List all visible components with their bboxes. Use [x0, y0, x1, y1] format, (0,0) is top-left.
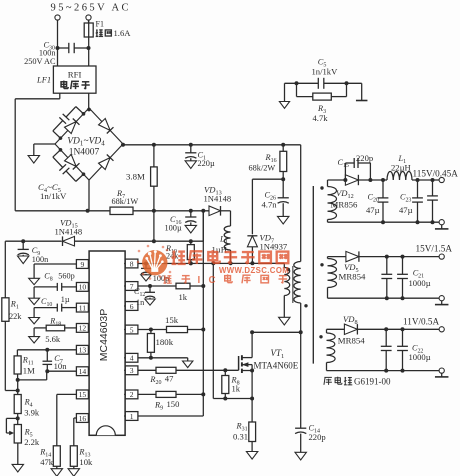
svg-text:22µH: 22µH: [391, 162, 411, 172]
resistor R22 1k: [176, 283, 190, 289]
diode VD2 (bridge top-right): [99, 118, 114, 133]
output label 11V/0.5A: [403, 316, 440, 326]
resistor R3 labels: [313, 104, 329, 123]
capacitor C21 1000u: [397, 255, 408, 301]
svg-text:95~265V AC: 95~265V AC: [51, 3, 129, 14]
transistor VT1 labels: [254, 348, 299, 370]
svg-text:3: 3: [130, 366, 134, 375]
resistor R8 1k: [222, 370, 229, 398]
capacitor C30 labels: [24, 41, 56, 66]
ground (pin 11): [29, 318, 40, 324]
output label 15V/1.5A: [416, 243, 453, 253]
wire bridge left corner to ground: [34, 144, 55, 156]
wire pin 2 net: [138, 392, 205, 396]
watermark url: [219, 266, 289, 275]
resistor R9 150: [156, 391, 176, 397]
svg-text:47µ: 47µ: [399, 205, 413, 215]
capacitor C26 labels: [262, 190, 278, 209]
svg-text:12: 12: [79, 324, 87, 333]
capacitor C7 labels: [54, 354, 68, 371]
capacitor C9 labels: [32, 246, 48, 264]
diode VD13: [209, 206, 221, 216]
wire aux sense to source node: [213, 263, 254, 400]
pin 10 box: [76, 283, 89, 292]
svg-text:1k: 1k: [232, 384, 241, 394]
ground (R5): [12, 464, 23, 472]
capacitor C15 labels: [338, 153, 374, 169]
svg-text:16: 16: [79, 414, 87, 423]
chassis ground (11V): [435, 373, 449, 377]
ground (pin 4): [183, 361, 193, 368]
transistor VT1 MOSFET: [239, 332, 255, 398]
terminal 115V-: [439, 220, 444, 225]
secondary phasing dot (11V): [319, 335, 322, 338]
diode VD8 labels: [338, 314, 365, 346]
wire pin 9 to ground: [34, 264, 76, 278]
svg-text:220µ: 220µ: [198, 159, 215, 168]
node R16 top: [281, 143, 285, 147]
wire pin 16 to R13: [74, 418, 77, 446]
resistor R20 labels: [149, 373, 174, 386]
wire bridge bottom to primary ground bus: [88, 180, 90, 211]
node 3.8M top: [152, 143, 156, 147]
capacitor C11 100p: [141, 264, 151, 275]
svg-text:0.31: 0.31: [233, 431, 248, 441]
IC bottom notch: [96, 426, 115, 436]
wire VD13 to L1: [221, 211, 231, 226]
svg-text:10k: 10k: [79, 457, 93, 467]
svg-text:15k: 15k: [165, 315, 179, 325]
wire HV down to transformer primary: [300, 145, 302, 262]
wire pin 13 net: [17, 348, 76, 356]
ground (pin 12): [29, 337, 40, 343]
svg-text:8: 8: [130, 259, 134, 268]
fuse F1: [84, 20, 93, 66]
resistor 3.8M: [151, 145, 158, 211]
transformer primary phasing dot: [304, 304, 307, 307]
wire pin 10 segs: [34, 287, 76, 298]
diode VD12 labels: [331, 188, 358, 209]
pin 2 box: [124, 390, 138, 399]
wire pin 3 gate line: [138, 368, 239, 372]
capacitor C8 labels: [44, 271, 74, 282]
svg-text:1n/1kV: 1n/1kV: [312, 67, 339, 77]
AC input terminal right: [86, 15, 91, 23]
svg-text:2.2k: 2.2k: [24, 437, 40, 447]
resistor R14 47k: [53, 446, 60, 469]
wire HV+ bus: [121, 143, 301, 147]
terminal 15V+: [439, 254, 444, 259]
svg-text:2: 2: [130, 390, 134, 399]
resistor R9 labels: [154, 399, 179, 411]
capacitor C23 47u: [412, 180, 434, 224]
resistor 180k: [147, 330, 154, 360]
svg-text:150: 150: [167, 399, 180, 409]
pin 9 box: [76, 260, 89, 269]
svg-text:100n: 100n: [32, 255, 48, 264]
capacitor C16: [185, 211, 196, 226]
pin 12 box: [76, 324, 89, 333]
svg-text:1µ: 1µ: [61, 295, 70, 304]
svg-text:11V/0.5A: 11V/0.5A: [403, 316, 440, 326]
resistor R1 22k: [2, 298, 18, 391]
svg-text:1N4148: 1N4148: [204, 193, 232, 203]
transformer primary winding: [294, 262, 301, 333]
svg-text:5: 5: [130, 325, 134, 334]
capacitor C16 labels: [165, 215, 182, 233]
resistor R31 labels: [233, 422, 248, 442]
ground (C14): [295, 452, 306, 460]
ground (C9): [18, 256, 29, 264]
svg-text:RFI: RFI: [68, 69, 82, 79]
wire pin 5 net: [138, 328, 205, 332]
resistor R5 labels: [24, 427, 40, 447]
svg-text:14: 14: [79, 367, 87, 376]
capacitor C11 label: [153, 274, 169, 283]
svg-text:1N4937: 1N4937: [260, 241, 288, 251]
svg-text:6: 6: [130, 302, 134, 311]
transformer core: [292, 266, 294, 303]
ground (C26): [278, 216, 289, 224]
transformer label G6191-00: [324, 377, 391, 387]
capacitor C22a: [381, 327, 392, 372]
wire primary bus right segment: [133, 209, 209, 213]
wire primary bus left segment: [15, 209, 110, 213]
svg-text:1000µ: 1000µ: [409, 352, 431, 362]
ground (R14): [51, 469, 62, 476]
resistor R8 labels: [231, 376, 241, 394]
inductor L1 labels: [212, 234, 228, 255]
left rail to divider: [4, 241, 6, 298]
terminal 11V-: [439, 368, 444, 373]
IC label MC44603P: [98, 309, 110, 362]
ground (C16): [185, 225, 196, 233]
svg-text:47k: 47k: [40, 457, 54, 467]
svg-text:1M: 1M: [23, 366, 35, 376]
pin 4 box: [124, 353, 138, 362]
diode VD13 labels: [204, 184, 232, 203]
watermark line3: [163, 274, 287, 285]
resistor R14 labels: [39, 448, 54, 467]
svg-text:MR854: MR854: [338, 336, 365, 346]
capacitor C5b (across VD3): [53, 148, 85, 181]
wire feedback rail: [202, 211, 204, 395]
resistor R4 3.9k: [14, 395, 21, 425]
ground (snubber left): [279, 102, 289, 109]
capacitor C12 labels: [134, 287, 145, 307]
transformer aux winding: [284, 263, 289, 317]
diode VD5 MR854: [328, 251, 440, 261]
svg-text:F1: F1: [96, 20, 104, 29]
secondary phasing dot (115V): [320, 186, 323, 189]
bridge label VD1~VD4 1N4007: [67, 137, 105, 158]
secondary winding (115V): [328, 180, 440, 222]
bridge rectifier outline: [55, 108, 123, 180]
svg-text:10n: 10n: [54, 361, 68, 371]
svg-text:MC44603P: MC44603P: [98, 309, 110, 362]
svg-text:C: C: [209, 275, 216, 286]
resistor R16 68k/2W: [280, 145, 287, 181]
diode VD3 (bridge bottom-left): [65, 154, 80, 169]
RFI filter label LF1: [36, 75, 51, 85]
transformer aux phasing dot: [287, 268, 290, 271]
resistor R20 47: [156, 367, 176, 373]
svg-text:13: 13: [79, 346, 87, 355]
svg-text:G6191-00: G6191-00: [354, 377, 391, 387]
pin 3 box: [124, 366, 138, 375]
snubber network C5 R3: [285, 78, 362, 102]
resistor R1 labels: [9, 300, 22, 322]
wire pin 14 net: [18, 371, 77, 380]
resistor R11 1M: [14, 356, 21, 382]
resistor R22 labels: [179, 292, 188, 302]
ground (pin 10): [29, 298, 40, 304]
svg-text:4: 4: [130, 354, 134, 363]
terminal 11V+: [439, 327, 444, 332]
inductor L1 (primary side): [224, 226, 230, 263]
potentiometer R5 2.2k: [6, 418, 21, 464]
pin 1 box: [124, 412, 138, 421]
resistor R4 labels: [24, 397, 40, 417]
resistor 15k label: [165, 315, 179, 325]
ground (bridge left): [28, 156, 39, 164]
svg-text:180k: 180k: [156, 337, 174, 347]
wire RFI right output to bridge: [87, 93, 91, 111]
capacitor C1 labels: [198, 151, 215, 168]
capacitor C8 560p: [57, 283, 61, 291]
resistor R7 68k/1W: [110, 207, 133, 214]
diode VD15 labels: [55, 217, 83, 236]
watermark logo disc: [142, 250, 167, 275]
svg-text:4.7k: 4.7k: [313, 113, 329, 123]
svg-text:47µ: 47µ: [366, 205, 380, 215]
op-amp U1 IC MC44603P body: [89, 251, 125, 435]
svg-text:10: 10: [79, 283, 87, 292]
svg-text:LF1: LF1: [36, 75, 51, 85]
svg-text:1n: 1n: [136, 298, 144, 307]
svg-text:MTA4N60E: MTA4N60E: [254, 360, 299, 370]
inductor L1 22uH labels: [391, 154, 411, 172]
diode VD8 MR854: [327, 324, 440, 334]
pin 8 box: [124, 259, 138, 268]
watermark text big: [172, 250, 289, 264]
resistor R11 labels: [22, 356, 35, 376]
wire drain to primary bottom: [250, 330, 303, 334]
chassis ground (15V): [435, 301, 449, 305]
diode VD5 labels: [339, 262, 366, 281]
capacitor C7 10n: [43, 350, 53, 373]
chassis ground (115V): [435, 225, 449, 229]
svg-text:WWW.DZSC.COM: WWW.DZSC.COM: [219, 266, 289, 275]
diode VD4 (bridge bottom-right): [99, 154, 114, 169]
svg-text:220p: 220p: [356, 153, 373, 163]
capacitor C21a: [381, 255, 392, 301]
capacitor C14 220p: [295, 332, 306, 452]
svg-text:100µ: 100µ: [165, 224, 182, 233]
resistor 180k label: [156, 337, 174, 347]
diode VD7 1N4937: [247, 236, 257, 263]
resistor 3.8M label: [126, 172, 145, 182]
capacitor C20 labels: [366, 193, 380, 215]
AC input terminal left: [55, 15, 60, 66]
ground (C1): [185, 161, 196, 169]
transformer core secondary bar: [312, 186, 314, 364]
capacitor C22 1000u: [397, 327, 408, 372]
ground (aux winding): [279, 317, 290, 325]
capacitor C9: [18, 241, 29, 256]
wire 3.8M to sense line: [152, 211, 156, 243]
capacitors C4~C5 labels: [38, 182, 67, 201]
ground (R31): [246, 452, 257, 460]
svg-text:1N4007: 1N4007: [69, 148, 100, 158]
pin 13 box: [76, 345, 89, 354]
wire sense to bus riser: [202, 211, 204, 241]
svg-text:1N4148: 1N4148: [55, 227, 83, 237]
ground (C12): [145, 299, 155, 305]
pin 14 box: [76, 367, 89, 376]
svg-text:250V AC: 250V AC: [24, 57, 56, 66]
resistor R31 0.31: [249, 399, 256, 452]
RFI filter LF1 box: [53, 66, 96, 93]
pin 11 box: [76, 303, 89, 312]
svg-text:115V/0.45A: 115V/0.45A: [413, 168, 459, 178]
svg-text:9: 9: [81, 260, 85, 269]
svg-text:4.7n: 4.7n: [262, 199, 278, 209]
svg-text:1: 1: [130, 412, 134, 421]
svg-text:1.6A: 1.6A: [114, 28, 132, 38]
resistor R13 10k: [70, 446, 77, 469]
svg-text:11: 11: [79, 303, 87, 312]
svg-text:3.8M: 3.8M: [126, 172, 145, 182]
svg-text:VD1~VD4: VD1~VD4: [67, 137, 105, 148]
svg-text:68k/1W: 68k/1W: [112, 197, 139, 206]
capacitor C21 labels: [409, 268, 431, 288]
capacitor C20 47u: [378, 180, 389, 224]
terminal 115V+: [439, 177, 444, 182]
resistor R18 5.6k: [46, 325, 64, 331]
svg-text:I: I: [198, 275, 201, 286]
svg-text:5.6k: 5.6k: [45, 334, 61, 344]
wire R16 node to VD7: [252, 179, 283, 234]
output label 115V/0.45A: [413, 168, 459, 178]
node C1 top: [189, 143, 193, 147]
resistor R19 labels: [165, 244, 179, 261]
resistor R13 labels: [78, 448, 93, 467]
pin 16 box: [76, 414, 89, 423]
watermark halftone dots: [137, 245, 172, 280]
svg-text:47: 47: [165, 373, 174, 383]
wire pin 4 to ground: [138, 358, 188, 361]
AC input label 95~265V AC: [51, 3, 129, 14]
wire pin 15 to R14: [57, 394, 77, 445]
capacitor C1: [185, 145, 196, 161]
wire RFI left output to left rail: [15, 93, 60, 211]
capacitor C12 1n: [145, 286, 155, 299]
svg-text:15V/1.5A: 15V/1.5A: [416, 243, 453, 253]
terminal 15V-: [439, 296, 444, 301]
capacitor C14 labels: [309, 424, 326, 443]
svg-text:220p: 220p: [309, 432, 326, 442]
resistor R16 labels: [249, 153, 277, 172]
svg-text:68k/2W: 68k/2W: [249, 163, 276, 172]
chassis ground (snubber right): [356, 100, 368, 102]
svg-text:1000µ: 1000µ: [409, 278, 431, 288]
diode VD7 labels: [260, 232, 288, 251]
capacitor C10 labels: [41, 295, 70, 308]
wire pin 8 / aux sense line: [138, 261, 284, 265]
capacitor C26 4.7n: [278, 179, 289, 216]
ground (C11): [141, 275, 151, 281]
capacitor C5 labels: [312, 58, 339, 77]
diode VD12 MR856: [328, 175, 388, 185]
resistor R19: [187, 241, 194, 263]
diode VD15: [63, 236, 75, 246]
capacitor C23 labels: [399, 193, 413, 215]
resistor R18 labels: [45, 316, 61, 344]
fuse F1 label: [96, 20, 132, 39]
wire divider node: [16, 380, 20, 395]
secondary winding (11V): [327, 329, 440, 370]
wire pin 1 net: [138, 394, 203, 416]
svg-text:1k: 1k: [179, 292, 188, 302]
svg-text:1n/1kV: 1n/1kV: [40, 191, 67, 201]
svg-text:MR856: MR856: [331, 199, 358, 209]
pin 5 box: [124, 325, 138, 334]
capacitor C4 (across VD1): [53, 107, 85, 140]
capacitor C22 labels: [409, 344, 431, 362]
capacitor C10 1u: [57, 304, 61, 312]
wire pin 11 segs: [34, 308, 76, 318]
pin 7 box: [124, 282, 138, 291]
svg-text:15: 15: [79, 390, 87, 399]
capacitor C30: [56, 43, 91, 53]
ground (R13): [68, 469, 79, 476]
ground (pin 9): [29, 278, 40, 284]
wire 115V rail to terminal: [381, 178, 439, 182]
pin 15 box: [76, 390, 89, 399]
inductor L1 22uH: [387, 172, 412, 181]
diode VD1 (bridge top-left): [65, 118, 80, 133]
svg-text:22k: 22k: [9, 312, 22, 321]
wire pin 7 net: [138, 284, 205, 288]
wire AC sense line: [5, 239, 203, 243]
resistor R7 labels: [112, 189, 139, 206]
svg-text:560p: 560p: [58, 271, 74, 280]
resistor 15k: [167, 326, 188, 332]
wire pin 12 segs: [34, 328, 76, 337]
capacitor C24 (output): [427, 180, 438, 222]
secondary phasing dot (15V): [320, 263, 323, 266]
secondary winding (15V): [328, 257, 440, 299]
pin 6 box: [124, 302, 138, 311]
capacitor C15 220p: [345, 158, 370, 180]
svg-text:3.9k: 3.9k: [24, 407, 40, 417]
svg-text:MR854: MR854: [339, 271, 366, 281]
